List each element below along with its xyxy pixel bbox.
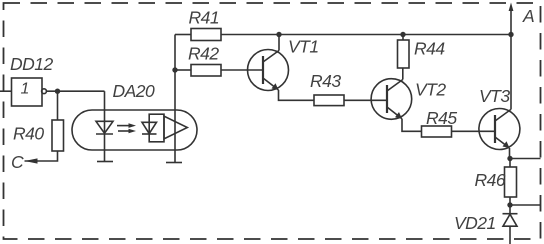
node R46 bottom junction (507, 202, 512, 207)
wire VT1 collector (278, 35, 280, 51)
amplifier of DA20 (164, 116, 187, 139)
svg-text:R43: R43 (310, 71, 341, 91)
wire DA20 output / R41 R42 left rail (174, 35, 176, 163)
pin bar DA20 output (166, 162, 182, 164)
pin bar LED cathode (97, 161, 113, 163)
wire input to DD12 (0, 90, 12, 92)
wire emitter node to R46 (509, 159, 511, 168)
wire R42 left (175, 69, 191, 71)
node VT1 collector junction (276, 32, 281, 37)
wire R43 to VT2 base (344, 99, 387, 101)
resistor R41 (191, 29, 221, 41)
svg-text:VD21: VD21 (454, 213, 496, 233)
wire LED anode (104, 91, 106, 161)
svg-text:R44: R44 (414, 39, 445, 59)
resistor R43 (314, 95, 344, 106)
opto light arrows (117, 123, 136, 133)
svg-text:VT2: VT2 (415, 80, 446, 100)
wire VT2 emitter to R45 (402, 119, 422, 132)
node VT3 emitter junction (507, 156, 512, 161)
wire VT3 emitter down (509, 148, 511, 159)
resistor R46 (505, 167, 517, 197)
LED of DA20 (96, 121, 113, 134)
wire junction to R40 (57, 91, 59, 120)
node A arrow (509, 3, 514, 12)
svg-text:VT3: VT3 (479, 86, 510, 106)
wire VT1 emitter to R43 (279, 90, 315, 100)
logic gate DD12 (12, 78, 47, 106)
wire DD12 output (46, 90, 104, 92)
svg-text:1: 1 (21, 81, 30, 98)
wire top rail (221, 34, 511, 36)
wire VT2 collector to R44 (402, 68, 404, 80)
svg-text:R40: R40 (13, 124, 44, 144)
diode VD21 (503, 214, 518, 227)
node R42 junction (172, 67, 177, 72)
node rail to A junction (508, 32, 513, 37)
wire junction to right border (510, 204, 541, 206)
wire R46 to VD21 (509, 197, 511, 214)
resistor R45 (422, 126, 452, 137)
transistor VT3 (479, 109, 520, 150)
wire R42 to VT1 base (221, 69, 263, 71)
resistor R44 (398, 40, 410, 68)
svg-text:DD12: DD12 (10, 54, 54, 74)
svg-text:A: A (522, 6, 535, 26)
wire R44 top (402, 35, 404, 41)
wire VD21 anode down (509, 226, 511, 244)
svg-text:R46: R46 (475, 170, 506, 190)
transistor VT1 (248, 50, 289, 91)
resistor R40 (52, 120, 64, 151)
svg-text:R42: R42 (188, 44, 219, 64)
node R44 rail junction (400, 32, 405, 37)
wire R41 left (175, 34, 191, 36)
transistor VT2 (371, 79, 412, 120)
svg-text:C: C (11, 152, 24, 172)
resistor R42 (191, 65, 221, 77)
wire R40 to node C (25, 151, 58, 161)
wire R45 to VT3 base (452, 130, 496, 132)
wire VT3 collector / node A line (510, 10, 512, 110)
optocoupler DA20 body (72, 110, 197, 150)
svg-text:VT1: VT1 (288, 37, 319, 57)
node junction DD12 output (55, 89, 60, 94)
svg-text:R45: R45 (426, 108, 457, 128)
photodiode of DA20 (142, 114, 164, 142)
wire emitter node to right border (510, 158, 541, 160)
svg-text:DA20: DA20 (113, 81, 156, 101)
node C arrow (25, 158, 38, 163)
svg-text:R41: R41 (189, 8, 220, 28)
